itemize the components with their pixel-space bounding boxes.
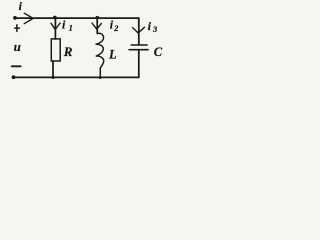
svg-text:u: u xyxy=(14,39,21,54)
svg-text:R: R xyxy=(63,44,73,59)
svg-text:3: 3 xyxy=(152,24,158,34)
svg-text:2: 2 xyxy=(113,23,119,33)
svg-text:1: 1 xyxy=(69,23,73,33)
svg-text:L: L xyxy=(108,47,117,61)
svg-text:C: C xyxy=(154,45,163,59)
